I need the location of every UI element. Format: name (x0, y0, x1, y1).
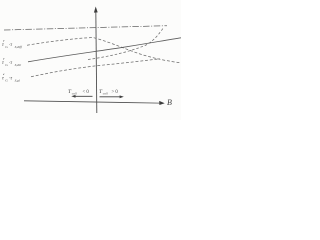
svg-text:G: G (5, 63, 8, 67)
svg-text:S,dir: S,dir (15, 63, 22, 68)
svg-text:G: G (5, 45, 8, 49)
svg-text:coll: coll (72, 91, 77, 95)
svg-text:S,diff: S,diff (15, 45, 23, 50)
svg-text:B: B (167, 98, 172, 107)
svg-text:G: G (5, 78, 8, 82)
svg-text:·τ: ·τ (9, 77, 12, 82)
svg-text:S,gl: S,gl (15, 78, 20, 83)
svg-text:> 0: > 0 (112, 90, 119, 95)
svg-text:< 0: < 0 (83, 90, 90, 95)
svg-text:·τ: ·τ (9, 61, 12, 66)
svg-text:coll: coll (103, 91, 108, 95)
svg-text:·τ: ·τ (9, 43, 12, 48)
